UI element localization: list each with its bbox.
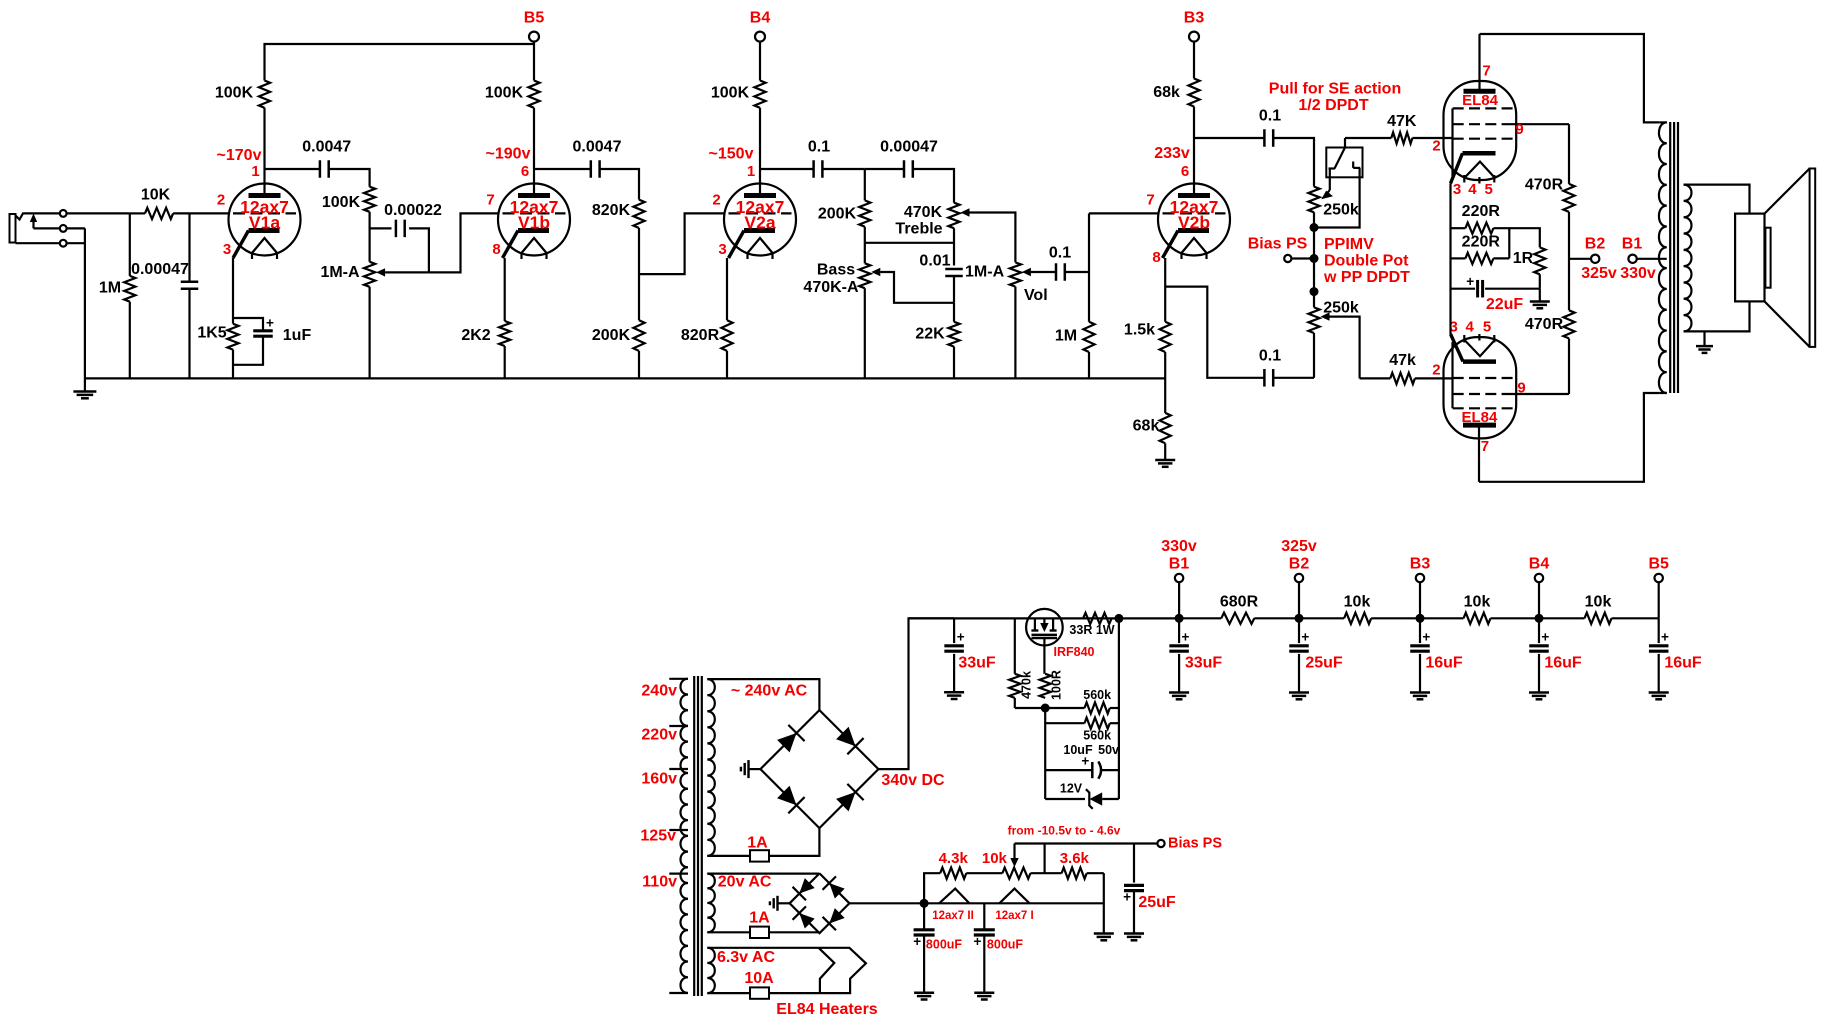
bridge rectifier main (760, 710, 878, 828)
terminal B1 supply (1175, 614, 1184, 623)
ground at bias divider (1103, 873, 1105, 933)
svg-text:6: 6 (521, 163, 529, 180)
svg-text:12V: 12V (1060, 782, 1083, 796)
triode V1a 12ax7 envelope (229, 184, 301, 256)
V2a cathode (744, 228, 775, 233)
svg-text:1A: 1A (749, 910, 770, 927)
svg-text:330v: 330v (1161, 538, 1197, 555)
EL84 lower screen wire pin 9 (1512, 393, 1569, 395)
ground at bias bridge (778, 902, 790, 904)
V1b heater (522, 238, 547, 253)
wire to V2a grid (639, 213, 724, 274)
potentiometer 470K Treble (948, 203, 959, 229)
svg-text:560k: 560k (1083, 729, 1111, 743)
svg-text:B4: B4 (1529, 556, 1550, 573)
svg-text:47K: 47K (1387, 113, 1417, 130)
diode D7 (lower-left) (799, 913, 814, 928)
potentiometer 250k lower (1308, 307, 1319, 333)
svg-text:10k: 10k (1585, 594, 1612, 611)
svg-text:Bias PS: Bias PS (1168, 836, 1222, 852)
wire HT top to bridge (707, 679, 819, 710)
svg-text:100K: 100K (322, 194, 361, 211)
svg-text:325v: 325v (1581, 265, 1617, 282)
wire pot wiper to V1b grid (429, 213, 498, 272)
resistor 470R lower screen (1563, 310, 1574, 338)
svg-text:800uF: 800uF (987, 938, 1023, 952)
bias adjust line (1015, 842, 1157, 844)
wire 10K to V1a grid (173, 212, 229, 214)
svg-text:0.1: 0.1 (808, 138, 830, 155)
svg-text:1A: 1A (747, 835, 768, 852)
svg-text:1M-A: 1M-A (320, 264, 360, 281)
svg-text:Double Pot: Double Pot (1324, 253, 1409, 270)
svg-text:V1a: V1a (249, 213, 280, 233)
V2b heater (1182, 238, 1207, 253)
svg-text:110v: 110v (642, 874, 677, 891)
svg-text:1R: 1R (1513, 250, 1534, 267)
capacitor 33uF B1 (1178, 618, 1180, 643)
node V1a plate / coupling (265, 168, 320, 170)
capacitor 1uF V1a cathode bypass (233, 318, 263, 331)
svg-text:9: 9 (1515, 121, 1523, 138)
svg-text:+: + (973, 934, 981, 949)
fuse 1A HT (707, 855, 750, 857)
potentiometer 1M-A Vol (1010, 262, 1021, 286)
svg-text:325v: 325v (1281, 538, 1317, 555)
capacitor 0.1 lower coupling (1263, 369, 1266, 387)
svg-text:B3: B3 (1184, 10, 1205, 27)
pentode EL84 lower envelope (1444, 337, 1517, 438)
terminal B5 supply (1658, 582, 1660, 618)
svg-text:3: 3 (718, 241, 726, 258)
tone stack mid rail (865, 242, 954, 244)
svg-text:0.0047: 0.0047 (573, 139, 622, 156)
svg-text:100K: 100K (485, 85, 524, 102)
svg-text:330v: 330v (1620, 265, 1656, 282)
svg-text:2: 2 (1432, 138, 1440, 155)
svg-text:10k: 10k (982, 850, 1008, 867)
svg-text:470k: 470k (1020, 671, 1034, 699)
terminal B2 (1569, 258, 1591, 260)
svg-text:0.0047: 0.0047 (302, 138, 351, 155)
svg-text:2: 2 (1432, 362, 1440, 379)
capacitor 0.0047 V1a-V1b (319, 160, 322, 178)
svg-text:+: + (913, 934, 921, 949)
input jack J1 (10, 214, 16, 243)
svg-text:250k: 250k (1323, 202, 1359, 219)
terminal Bias PS output (1157, 840, 1164, 847)
heater chevron 12ax7 I (999, 889, 1029, 904)
jack tip contact arrow (32, 217, 34, 228)
diode D6 (upper-right) (829, 883, 844, 898)
svg-text:10uF: 10uF (1063, 743, 1093, 757)
resistor 200K V2a grid (633, 320, 644, 351)
svg-text:16uF: 16uF (1544, 655, 1582, 672)
svg-text:100K: 100K (215, 85, 254, 102)
svg-text:340v DC: 340v DC (881, 772, 945, 789)
potentiometer 1M-A gain (364, 262, 375, 287)
capacitor 0.00022 bright (370, 227, 392, 229)
resistor 22K (953, 303, 955, 322)
wire B5 to plate resistors (533, 41, 535, 81)
ground at 33uF (944, 691, 964, 694)
capacitor 0.00047 treble (865, 168, 904, 170)
wire bass wiper (880, 272, 954, 303)
svg-text:B1: B1 (1622, 236, 1643, 253)
resistor 560k lower (1044, 708, 1046, 770)
capacitor 800uF II (923, 903, 925, 929)
diode D1 (upper-left) (777, 733, 796, 752)
wire top rail to OT (1480, 34, 1660, 122)
wire 20v to bias bridge (707, 872, 819, 874)
svg-text:200K: 200K (592, 327, 631, 344)
fuse 1A bias (707, 931, 750, 933)
triode V2b 12ax7 envelope (1158, 184, 1230, 256)
terminal B4 supply (1535, 614, 1544, 623)
svg-text:V1b: V1b (518, 213, 550, 233)
MOSFET IRF840 (1026, 609, 1063, 646)
svg-text:PPIMV: PPIMV (1324, 236, 1374, 253)
OT secondary (1684, 185, 1692, 332)
V2a heater (748, 238, 773, 253)
EL84 upper pin stubs 3 4 5 (1463, 175, 1465, 183)
wire bridge output to rail (878, 618, 954, 769)
resistor 680R (1179, 617, 1221, 619)
capacitor 0.1 upper coupling (1194, 137, 1264, 139)
resistor 1M tail reference (1083, 322, 1094, 352)
wire input tip to grid V1a (67, 212, 130, 214)
svg-text:10k: 10k (1464, 594, 1491, 611)
resistor 1M input (129, 213, 131, 276)
resistor 4.3k bias (924, 873, 940, 903)
svg-text:820R: 820R (681, 327, 720, 344)
svg-text:Vol: Vol (1024, 287, 1048, 304)
svg-text:220R: 220R (1462, 203, 1501, 220)
diode D3 (lower-left) (777, 786, 796, 805)
svg-text:0.1: 0.1 (1259, 348, 1281, 365)
svg-text:16uF: 16uF (1664, 655, 1702, 672)
svg-text:+: + (1181, 630, 1189, 645)
svg-text:0.00022: 0.00022 (384, 202, 442, 219)
PT primary taps (669, 678, 688, 680)
svg-text:125v: 125v (640, 828, 676, 845)
PT 6.3v secondary (707, 948, 715, 993)
diode D2 (upper-right) (836, 727, 855, 746)
resistor 100R gate stopper (1040, 674, 1051, 698)
svg-text:233v: 233v (1154, 145, 1190, 162)
OT core (1669, 122, 1671, 393)
terminal B5 (529, 32, 539, 42)
svg-text:~ 240v AC: ~ 240v AC (731, 683, 808, 700)
resistor 1K5 V1a cathode (232, 258, 234, 324)
resistor 68k tail (1160, 413, 1171, 443)
svg-text:680R: 680R (1220, 594, 1259, 611)
terminal B3 supply (1416, 614, 1425, 623)
svg-text:820K: 820K (592, 202, 631, 219)
svg-text:560k: 560k (1083, 688, 1111, 702)
svg-text:V2a: V2a (744, 213, 775, 233)
V1b cathode (518, 228, 549, 233)
svg-text:10K: 10K (141, 187, 171, 204)
ground rail (preamp) (85, 377, 1165, 379)
diode D8 (lower-right) (829, 908, 844, 923)
EL84 lower grids (dashed) (1453, 377, 1513, 379)
V2a plate (744, 193, 776, 198)
svg-text:2: 2 (712, 192, 720, 209)
svg-text:+: + (266, 316, 274, 331)
svg-text:8: 8 (1152, 249, 1160, 266)
svg-text:7: 7 (1481, 438, 1489, 455)
capacitor 0.01 mid (945, 268, 963, 271)
capacitor 16uF B3 (1419, 618, 1421, 643)
svg-text:7: 7 (1146, 192, 1154, 209)
svg-text:7: 7 (486, 192, 494, 209)
svg-text:4.3k: 4.3k (939, 850, 969, 867)
svg-text:1M: 1M (99, 280, 121, 297)
resistor 33R 1W (1083, 613, 1112, 624)
svg-text:8: 8 (492, 241, 500, 258)
svg-text:200K: 200K (818, 206, 857, 223)
capacitor 16uF B5 (1658, 618, 1660, 643)
EL84 lower g3 tie (1451, 342, 1453, 408)
V2b plate (1178, 193, 1210, 198)
svg-text:4: 4 (1466, 319, 1475, 336)
wire V2b grid net (1089, 212, 1158, 214)
svg-text:0.01: 0.01 (919, 253, 950, 270)
svg-text:EL84: EL84 (1462, 92, 1499, 109)
svg-text:47k: 47k (1389, 352, 1416, 369)
EL84 lower pin stubs 3 4 5 (1463, 335, 1465, 343)
resistor 470k gate bleed (1014, 618, 1016, 673)
capacitor 16uF B4 (1538, 618, 1540, 643)
svg-text:B5: B5 (524, 10, 545, 27)
svg-text:20v AC: 20v AC (718, 874, 772, 891)
capacitor 25uF B2 (1298, 618, 1300, 643)
svg-text:800uF: 800uF (926, 938, 962, 952)
terminal B4 (755, 32, 765, 42)
EL84 upper plate (1464, 89, 1496, 94)
EL84 upper cathode (1463, 151, 1496, 156)
wire cathode out to lower coupling cap (1165, 287, 1264, 378)
capacitor 0.0047 V1b-V2a (534, 168, 591, 170)
resistor 10k B3-B4 (1420, 617, 1464, 619)
PT HT secondary ~240v (707, 679, 715, 856)
svg-text:10k: 10k (1344, 594, 1371, 611)
svg-text:470K-A: 470K-A (803, 279, 859, 296)
resistor 10k B2-B3 (1299, 617, 1344, 619)
wire jack to ground bus (67, 227, 85, 229)
capacitor 0.1 treble feed (760, 168, 814, 170)
PT core (693, 676, 695, 996)
svg-text:470R: 470R (1525, 176, 1564, 193)
svg-text:B5: B5 (1648, 556, 1669, 573)
svg-text:0.1: 0.1 (1259, 108, 1281, 125)
svg-text:B4: B4 (750, 10, 771, 27)
svg-text:22K: 22K (915, 326, 945, 343)
svg-text:1uF: 1uF (283, 327, 312, 344)
wire switch to PPIMV junction (1318, 177, 1360, 227)
svg-text:3: 3 (223, 241, 231, 258)
wire shared cathode bus (1449, 183, 1451, 334)
svg-text:6.3v AC: 6.3v AC (717, 949, 776, 966)
heater chevron 12ax7 II (939, 889, 969, 904)
svg-text:5: 5 (1483, 319, 1491, 336)
V2b cathode (1178, 228, 1209, 233)
svg-text:Treble: Treble (895, 220, 942, 237)
svg-text:+: + (1301, 630, 1309, 645)
svg-text:+: + (1661, 630, 1669, 645)
capacitor 800uF I (983, 903, 985, 929)
resistor 100K V1a plate (259, 81, 270, 108)
svg-text:6: 6 (1181, 163, 1189, 180)
V1b plate (518, 193, 550, 198)
resistor 820R V2a cathode (726, 258, 728, 320)
diode D4 (lower-right) (836, 792, 855, 811)
svg-text:160v: 160v (641, 771, 677, 788)
svg-text:22uF: 22uF (1486, 296, 1524, 313)
capacitor 0.00047 input (188, 213, 190, 281)
svg-text:B1: B1 (1169, 556, 1190, 573)
svg-text:240v: 240v (641, 683, 677, 700)
svg-text:50v: 50v (1098, 743, 1119, 757)
svg-text:1M: 1M (1055, 328, 1077, 345)
V1a plate (249, 193, 281, 198)
heater chevron outer (819, 948, 866, 993)
terminal B3 (1189, 32, 1199, 42)
svg-text:~170v: ~170v (217, 147, 262, 164)
triode V2a 12ax7 envelope (724, 184, 796, 256)
svg-text:16uF: 16uF (1425, 655, 1463, 672)
pentode EL84 upper envelope (1444, 81, 1517, 180)
resistor 10k B4-B5 (1539, 617, 1585, 619)
EL84 lower heater (1465, 341, 1494, 357)
svg-text:0.00047: 0.00047 (880, 139, 938, 156)
transformer OT primary (1659, 122, 1667, 393)
svg-text:100R: 100R (1050, 670, 1064, 700)
resistor 560k upper (1045, 707, 1084, 709)
svg-text:B2: B2 (1585, 236, 1606, 253)
svg-text:EL84 Heaters: EL84 Heaters (776, 1001, 877, 1018)
svg-text:9: 9 (1517, 380, 1525, 397)
node regulator output (1114, 614, 1123, 623)
B+ rail (909, 617, 1180, 619)
svg-text:+: + (1422, 630, 1430, 645)
resistor 100K V1b plate (528, 81, 539, 108)
ground at input (84, 378, 86, 391)
EL84 upper g3 tie (1451, 108, 1453, 176)
svg-text:4: 4 (1468, 181, 1477, 198)
svg-text:1: 1 (747, 163, 755, 180)
svg-text:+: + (1466, 274, 1474, 289)
ground at speaker return (1703, 331, 1705, 346)
svg-text:2: 2 (217, 192, 225, 209)
resistor 470R upper screen (1568, 124, 1570, 184)
V1a heater (252, 238, 277, 253)
wire bottom rail to OT (1479, 393, 1660, 482)
svg-text:Pull for SE action: Pull for SE action (1269, 81, 1401, 98)
resistor 1.5k V2b cathode (1164, 258, 1166, 322)
svg-text:+: + (957, 630, 965, 645)
svg-text:33R 1W: 33R 1W (1069, 623, 1114, 637)
svg-text:470K: 470K (904, 204, 943, 221)
EL84 upper heater (1465, 162, 1494, 178)
resistor 3.6k bias (1062, 868, 1087, 879)
capacitor 25uF bias (1133, 844, 1135, 883)
V2a grid (dashed) (729, 212, 792, 214)
svg-text:7: 7 (1482, 63, 1490, 80)
potentiometer 250k upper (1308, 187, 1319, 213)
speaker (1735, 214, 1764, 302)
resistor 47K upper grid (1345, 137, 1391, 139)
svg-text:+: + (1541, 630, 1549, 645)
svg-text:~190v: ~190v (486, 146, 531, 163)
heater chevron inner (819, 948, 835, 993)
svg-text:1/2 DPDT: 1/2 DPDT (1298, 97, 1368, 114)
potentiometer Bass 470K-A (864, 243, 866, 263)
jack terminal circles (24, 212, 60, 214)
terminal B2 supply (1295, 614, 1304, 623)
capacitor 0.1 to V2b grid (1031, 271, 1056, 273)
node gate divider (1041, 704, 1050, 713)
wire plate V1a (263, 108, 265, 196)
wire OT secondary to speaker (1684, 185, 1750, 214)
svg-text:1: 1 (251, 163, 259, 180)
capacitor 33uF reservoir (953, 618, 955, 643)
svg-text:33uF: 33uF (958, 655, 996, 672)
resistor 100K V2a plate (754, 81, 765, 108)
svg-text:3.6k: 3.6k (1060, 850, 1090, 867)
EL84 lower cathode (1463, 359, 1496, 364)
svg-text:33uF: 33uF (1185, 655, 1223, 672)
resistor 100K V1b grid (364, 187, 375, 212)
zener 12V (1044, 770, 1046, 799)
resistor 68k V2b plate (1188, 79, 1199, 107)
svg-text:25uF: 25uF (1138, 894, 1176, 911)
resistor 220R lower (1451, 257, 1466, 259)
svg-text:1K5: 1K5 (197, 325, 226, 342)
EL84 upper grids (dashed) (1453, 107, 1513, 109)
V1b grid (dashed) (503, 212, 566, 214)
fuse 10A heater (707, 992, 750, 994)
svg-text:220R: 220R (1462, 234, 1501, 251)
svg-text:0.1: 0.1 (1049, 245, 1071, 262)
ground at bridge AC reference (749, 768, 761, 770)
svg-text:B2: B2 (1289, 556, 1310, 573)
svg-text:from -10.5v to - 4.6v: from -10.5v to - 4.6v (1008, 824, 1121, 838)
svg-text:220v: 220v (641, 727, 677, 744)
triode V1b 12ax7 envelope (498, 184, 570, 256)
wire 6.3v top to heaters (707, 947, 818, 949)
resistor 220R upper (1451, 227, 1466, 229)
svg-text:68k: 68k (1153, 84, 1180, 101)
svg-text:1M-A: 1M-A (965, 264, 1005, 281)
resistor 200K tone (864, 169, 866, 200)
svg-text:2K2: 2K2 (461, 327, 490, 344)
svg-text:68k: 68k (1133, 418, 1160, 435)
terminal Bias PS feed (1284, 255, 1291, 262)
ground at cathode network (1539, 289, 1541, 302)
potentiometer 10k bias (1002, 868, 1030, 879)
svg-text:w PP DPDT: w PP DPDT (1323, 269, 1410, 286)
EL84 upper screen wire pin 9 (1512, 123, 1569, 125)
svg-text:V2b: V2b (1178, 213, 1210, 233)
svg-text:0.00047: 0.00047 (131, 261, 189, 278)
svg-text:1.5k: 1.5k (1124, 322, 1155, 339)
wire treble wiper to volume (970, 213, 1016, 263)
svg-text:25uF: 25uF (1305, 655, 1343, 672)
bias rail (849, 902, 1103, 904)
svg-text:470R: 470R (1525, 316, 1564, 333)
